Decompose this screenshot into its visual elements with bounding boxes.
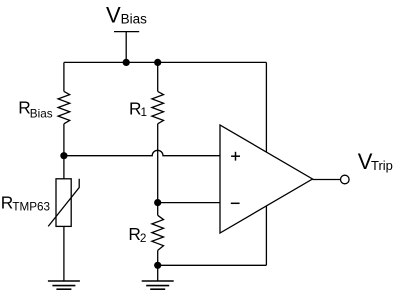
thermistor RTMP63 strike line [48,179,79,227]
junction at R2 top / - input [154,199,161,206]
junction at R2 bottom / feedback [154,262,161,269]
wire: middle branch R1 to R2 (through minus node) [157,124,159,216]
svg-text:Bias: Bias [30,107,53,120]
resistor R1 [152,91,164,123]
resistor RBias [58,91,70,123]
resistor R2 [152,215,164,250]
wire: middle branch upper lead [157,62,159,91]
output terminal circle [341,175,350,184]
label R1 [129,98,147,119]
svg-text:Trip: Trip [371,158,393,173]
wire: VBias stub [125,32,127,63]
svg-text:V: V [106,3,121,28]
wire: R2 to bottom node [157,250,159,265]
wire: minus node to op-amp - input [158,202,220,204]
ground (right) [142,281,174,289]
wire: thermistor to ground [63,226,65,281]
net label VTrip [358,149,393,174]
wire: op-amp output [313,179,341,181]
wire: top rail [64,61,267,63]
svg-text:Bias: Bias [121,11,148,26]
ground (left) [48,281,80,289]
op-amp U1 [220,125,313,233]
svg-text:R: R [18,98,30,118]
power supply VBias bar [114,31,139,33]
net label VBias [106,3,147,28]
svg-text:1: 1 [141,106,148,119]
wire: feedback bottom [158,264,267,266]
wire: RBias to thermistor (through node A) [63,124,65,179]
wire: node A to op-amp + input with hop over middle branch [64,150,220,155]
junction at VBias stub and top rail [123,59,130,66]
node A junction (RBias / RTMP63 / + input) [60,152,67,159]
label R2 [128,224,146,245]
op-amp + input marking [231,152,240,161]
wire: R2 bottom node to ground [157,265,159,281]
op-amp - input marking [231,202,240,204]
label RBias [18,98,52,121]
wire: feedback right vertical [265,62,267,265]
junction at R1 top [154,59,161,66]
label RTMP63 [1,192,50,213]
wire: left branch upper lead [63,62,65,91]
svg-text:2: 2 [140,232,147,245]
thermistor RTMP63 body [56,179,71,227]
svg-text:TMP63: TMP63 [12,200,50,213]
